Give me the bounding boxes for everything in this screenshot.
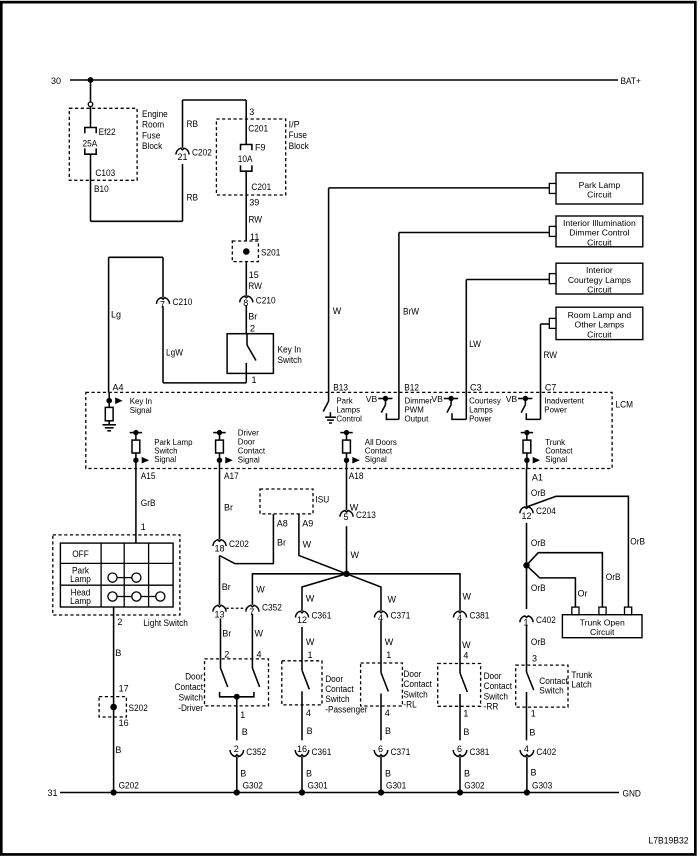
svg-text:39: 39 [249,198,259,208]
svg-text:VB: VB [431,394,443,404]
svg-text:C201: C201 [251,182,271,192]
svg-text:B: B [240,769,246,779]
svg-text:Courtegy Lamps: Courtegy Lamps [568,275,631,285]
svg-text:15: 15 [249,270,259,280]
svg-text:F9: F9 [255,143,266,153]
svg-text:LCM: LCM [616,400,634,410]
svg-text:Lamp: Lamp [70,574,91,584]
svg-text:B: B [115,648,121,658]
svg-text:B13: B13 [333,383,348,393]
svg-text:BrW: BrW [403,307,420,317]
svg-text:7: 7 [160,299,165,309]
svg-text:2: 2 [117,617,122,627]
svg-text:B: B [463,727,469,737]
svg-text:Block: Block [289,141,310,151]
svg-text:G301: G301 [386,780,406,790]
svg-text:Block: Block [142,141,163,151]
svg-text:C202: C202 [192,148,212,158]
svg-text:C402: C402 [536,615,556,625]
svg-text:1: 1 [463,709,468,719]
svg-text:Contact: Contact [484,681,513,691]
svg-text:Door: Door [484,671,502,681]
svg-text:A1: A1 [532,472,543,482]
svg-text:Room: Room [142,120,164,130]
svg-text:RB: RB [187,119,199,129]
svg-text:C381: C381 [470,611,490,621]
svg-text:Lamp: Lamp [70,596,91,606]
svg-text:Latch: Latch [571,680,591,690]
svg-text:W: W [255,629,264,639]
svg-text:RW: RW [249,215,263,225]
svg-text:Power: Power [544,404,567,414]
svg-text:C213: C213 [356,510,376,520]
svg-text:Ef22: Ef22 [99,127,116,137]
svg-text:30: 30 [51,76,61,86]
svg-text:B: B [464,769,470,779]
svg-text:A4: A4 [113,383,124,393]
svg-text:C371: C371 [391,747,411,757]
svg-text:Br: Br [277,538,286,548]
svg-text:W: W [388,595,397,605]
svg-text:31: 31 [48,788,58,798]
svg-text:Contact: Contact [325,684,354,694]
svg-text:Trunk: Trunk [571,670,592,680]
svg-text:W: W [351,550,360,560]
svg-text:4: 4 [385,708,390,718]
svg-text:S201: S201 [261,248,280,258]
svg-text:Circuit: Circuit [587,329,612,339]
svg-text:OrB: OrB [606,572,621,582]
svg-text:Signal: Signal [238,455,260,465]
svg-text:Br: Br [224,503,233,513]
svg-text:-RR: -RR [484,702,499,712]
svg-text:Engine: Engine [142,109,168,119]
svg-text:C210: C210 [173,297,193,307]
svg-text:1: 1 [240,710,245,720]
svg-text:18: 18 [214,544,224,554]
svg-text:16: 16 [297,744,307,754]
svg-text:LW: LW [469,339,481,349]
svg-text:Switch: Switch [539,686,563,696]
svg-text:C201: C201 [248,124,268,134]
svg-text:Lg: Lg [111,310,121,320]
svg-text:Fuse: Fuse [289,130,307,140]
svg-text:2: 2 [250,324,255,334]
svg-text:G302: G302 [464,780,484,790]
svg-text:Switch: Switch [403,689,427,699]
svg-text:B: B [242,727,248,737]
svg-text:Or: Or [578,589,588,599]
svg-text:4: 4 [257,650,262,660]
svg-text:C371: C371 [391,611,411,621]
svg-text:10A: 10A [238,154,253,164]
svg-text:Signal: Signal [365,454,387,464]
svg-text:Power: Power [469,413,492,423]
svg-text:S202: S202 [129,703,148,713]
svg-text:B: B [531,768,537,778]
svg-text:A15: A15 [141,471,156,481]
svg-text:LgW: LgW [166,348,183,358]
svg-text:C204: C204 [536,506,556,516]
svg-text:Door: Door [325,674,343,684]
svg-text:16: 16 [119,718,129,728]
svg-text:A9: A9 [302,519,313,529]
svg-text:W: W [306,594,315,604]
svg-text:A8: A8 [277,519,288,529]
svg-text:GND: GND [623,789,642,799]
svg-text:C381: C381 [470,747,490,757]
svg-text:G303: G303 [532,780,552,790]
svg-text:OrB: OrB [531,583,546,593]
svg-text:Br: Br [248,312,257,322]
svg-text:G302: G302 [243,780,263,790]
svg-text:G301: G301 [308,780,328,790]
svg-text:W: W [333,306,342,316]
svg-text:Trunk Open: Trunk Open [580,617,625,627]
svg-text:VB: VB [366,394,378,404]
svg-text:OrB: OrB [531,538,546,548]
svg-text:Interior Illumination: Interior Illumination [563,218,636,228]
svg-text:Dimmer Control: Dimmer Control [569,228,629,238]
svg-text:BAT+: BAT+ [621,76,641,86]
svg-text:RW: RW [248,281,262,291]
svg-text:W: W [256,585,265,595]
svg-text:3: 3 [249,107,254,117]
svg-text:Contact: Contact [539,676,568,686]
svg-text:C352: C352 [262,603,282,613]
svg-text:12: 12 [521,511,531,521]
svg-text:A18: A18 [349,471,364,481]
svg-text:OrB: OrB [531,637,546,647]
svg-text:Circuit: Circuit [587,285,612,295]
svg-text:Br: Br [222,629,231,639]
svg-text:Control: Control [336,413,362,423]
svg-text:B10: B10 [94,184,109,194]
svg-text:4: 4 [524,744,529,754]
svg-text:G202: G202 [119,780,139,790]
svg-text:OrB: OrB [531,488,546,498]
svg-text:Room Lamp and: Room Lamp and [568,310,632,320]
svg-text:Interior: Interior [586,265,613,275]
svg-text:17: 17 [119,684,129,694]
svg-text:6: 6 [457,744,462,754]
svg-text:OFF: OFF [72,549,89,559]
svg-text:W: W [385,637,394,647]
svg-text:Switch: Switch [179,693,203,703]
svg-text:Br: Br [222,582,231,592]
svg-text:4: 4 [306,708,311,718]
svg-text:B12: B12 [404,383,419,393]
svg-text:5: 5 [343,512,348,522]
svg-text:Key In: Key In [278,345,302,355]
svg-text:Output: Output [405,413,429,423]
svg-text:GrB: GrB [141,498,156,508]
svg-text:A17: A17 [224,471,239,481]
svg-text:Circuit: Circuit [590,627,615,637]
svg-text:Signal: Signal [154,454,176,464]
svg-text:C361: C361 [312,611,332,621]
svg-text:1: 1 [308,650,313,660]
svg-text:Other Lamps: Other Lamps [575,320,625,330]
svg-text:Fuse: Fuse [142,130,160,140]
svg-text:VB: VB [506,394,518,404]
svg-text:Circuit: Circuit [587,237,612,247]
svg-text:L7B19B32: L7B19B32 [649,836,689,846]
svg-text:C3: C3 [470,383,482,393]
svg-text:Door: Door [185,672,203,682]
svg-text:B: B [385,769,391,779]
svg-text:1: 1 [141,522,146,532]
svg-text:Contact: Contact [403,679,432,689]
svg-text:3: 3 [532,654,537,664]
svg-text:W: W [462,640,471,650]
svg-text:B: B [115,745,121,755]
svg-text:C210: C210 [256,295,276,305]
svg-text:4: 4 [463,651,468,661]
svg-text:C361: C361 [312,747,332,757]
svg-text:I/P: I/P [289,120,300,130]
svg-text:Switch: Switch [484,691,508,701]
svg-text:B: B [306,769,312,779]
svg-text:Switch: Switch [325,694,349,704]
svg-text:B: B [385,726,391,736]
svg-text:12: 12 [297,615,307,625]
svg-text:6: 6 [378,744,383,754]
svg-text:RB: RB [187,193,199,203]
svg-text:25A: 25A [83,138,98,148]
svg-text:Switch: Switch [278,355,302,365]
svg-text:Signal: Signal [545,454,567,464]
svg-text:Door: Door [403,669,421,679]
svg-text:C402: C402 [536,747,556,757]
svg-text:-Driver: -Driver [178,703,203,713]
svg-text:1: 1 [252,375,257,385]
svg-text:Signal: Signal [130,405,152,415]
svg-text:Light Switch: Light Switch [143,618,188,628]
svg-text:Circuit: Circuit [587,190,612,200]
svg-text:C7: C7 [545,383,557,393]
svg-text:W: W [463,592,472,602]
svg-text:C352: C352 [246,747,266,757]
svg-text:B: B [529,728,535,738]
svg-text:2: 2 [234,744,239,754]
svg-text:1: 1 [386,650,391,660]
svg-text:ISU: ISU [315,495,329,505]
svg-text:B: B [307,726,313,736]
svg-text:OrB: OrB [630,537,645,547]
svg-text:W: W [306,637,315,647]
svg-text:C202: C202 [229,539,249,549]
svg-text:21: 21 [177,152,187,162]
svg-text:Contact: Contact [175,682,204,692]
svg-text:W: W [303,540,312,550]
svg-text:1: 1 [531,709,536,719]
svg-text:RW: RW [544,350,558,360]
svg-text:C103: C103 [95,168,115,178]
svg-text:2: 2 [224,650,229,660]
svg-text:-RL: -RL [403,700,416,710]
svg-text:13: 13 [214,609,224,619]
svg-text:Park Lamp: Park Lamp [579,180,621,190]
